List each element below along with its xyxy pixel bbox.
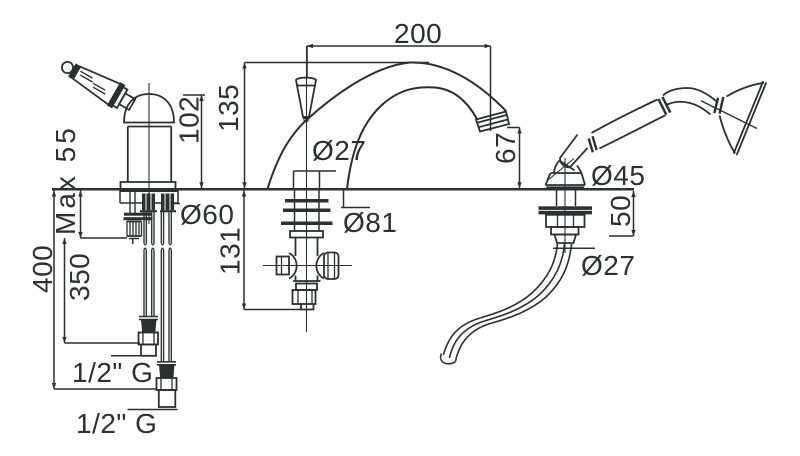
dimension 400 arrows [52,191,56,390]
right stud threaded [161,194,174,211]
dimension diam60 leader [170,203,180,205]
label half inch G lower leader [128,409,178,411]
svg-text:200: 200 [394,18,442,49]
dimension Max 55 arrows [78,191,82,239]
head bell bottom [720,116,736,154]
check valve ribbed body [127,222,142,237]
spout outer arc [268,62,507,189]
shank collar [551,227,579,235]
handle ball [62,62,73,73]
svg-text:Ø45: Ø45 [591,160,645,191]
valve collar line [128,126,171,128]
dimension Max 55 extension and tick [81,191,128,239]
dimension 102 line and top tick [183,95,205,188]
stud washers [140,210,176,212]
stud thread texture [146,194,170,211]
handle facet line 2 [80,75,92,82]
check valve washer bar 1 [124,213,152,216]
outlet tube [301,304,314,310]
shower vertical centerline [564,158,566,253]
tee left cup [289,253,297,279]
handle facet line 3 [93,83,105,90]
tube2 collar [157,362,176,365]
spout tube to tee [296,238,318,282]
dimension 102 arrows [199,95,203,188]
tube1 hex nut [139,333,159,345]
tee body bottom [293,280,321,282]
valve body cylinder [128,127,171,183]
shank washer 1 [539,206,593,210]
shank hex nut [546,215,585,227]
spout collar [290,231,323,238]
dimension 131 arrows [242,191,246,310]
dimension 200 arrows [307,44,491,48]
svg-text:Ø60: Ø60 [180,199,234,230]
spout thread bar 1 [285,199,329,203]
valve flange below deck [120,191,178,204]
dimension 350 arrows [62,238,66,343]
svg-text:102: 102 [174,96,205,144]
grip upper collar bands [658,97,670,115]
holder socket [554,161,582,174]
valve centerline [148,83,150,224]
spout thread bar 3 [281,222,333,226]
shank washer 2 [539,211,593,215]
svg-text:400: 400 [27,245,58,293]
head crossing line [701,101,757,129]
head bell top [727,83,765,97]
dimension 135 line and top line [245,63,430,189]
hose fitting [555,235,577,244]
handle base ring 2 [113,87,128,108]
supply tube right joint [161,243,171,250]
dimension 135 arrows [242,63,246,189]
valve dome [124,94,174,123]
shower axis centerline [548,159,574,181]
svg-text:67: 67 [490,132,521,164]
dimension diam27 spout bracket [294,171,337,188]
holder skirt [546,173,586,187]
handle lever cone [73,67,120,105]
tube2 ferrule [160,366,174,378]
dimension 400 line and tick [54,191,157,390]
check valve washer bar 2 [124,217,153,220]
head face [734,81,767,155]
spout thread bar 2 [283,209,331,213]
svg-text:Ø81: Ø81 [343,207,397,238]
handle facet line 1 [80,71,92,78]
tube1 end block [141,345,156,356]
spout shank walls [295,191,320,232]
dimension 50 line and bottom tick [609,191,634,236]
supply tube right upper [161,212,171,243]
handle base ring dark [108,83,124,107]
handle butt [560,135,588,168]
supply tube left lower [144,250,154,316]
outlet collar below tee [296,284,317,291]
dimension 67 arrows [517,128,521,189]
svg-text:131: 131 [215,227,246,275]
handle facet line 4 [93,87,105,94]
supply tube left upper [144,212,154,243]
hose middle line [450,244,565,358]
tube1 collar [139,317,158,320]
spout centerline [306,46,308,332]
handle stem [119,93,135,109]
svg-text:135: 135 [213,84,244,132]
head collar ring [714,97,723,114]
tee left hex [277,257,290,275]
tee right nut [324,253,339,280]
svg-text:350: 350 [64,253,95,301]
svg-text:50: 50 [605,195,636,227]
shower neck [663,88,716,115]
spout inner arc [347,87,477,189]
dimension 131 line and bottom tick [244,191,301,310]
outlet hex [293,290,316,304]
dimension 200 line and extensions [307,46,491,131]
supply tube left joint [144,243,154,250]
dimension 50 arrows [631,191,635,236]
tube1 ferrule [142,321,156,332]
check valve cap [129,239,139,245]
spout outlet [476,112,509,132]
svg-text:Ø27: Ø27 [581,250,635,281]
grip lower collar bands [589,136,597,152]
diverter knob [296,78,316,121]
dimension 350 line and tick [65,238,141,343]
check valve rod [130,191,135,214]
dimension diam81 leader [341,191,370,208]
left stud threaded [142,194,155,211]
handle collar band [69,65,80,79]
deck line [52,188,634,191]
svg-text:1/2" G: 1/2" G [72,357,153,388]
hose wall right [456,244,572,362]
tee right cup [316,253,324,279]
grip spindle [592,100,666,149]
valve escutcheon [121,182,176,188]
hose wall left [444,244,558,355]
hose end cap [441,354,456,364]
label half inch G upper leader [111,355,157,357]
supply tube right lower [161,250,171,362]
tube2 end block [159,390,176,407]
dimension 67 line and top tick [507,128,520,189]
shower shank below deck [557,191,576,207]
tube2 hex nut [157,378,177,390]
dimension diam27 shower leader [553,247,595,249]
tee centerline [263,265,352,267]
svg-text:1/2" G: 1/2" G [76,408,157,439]
